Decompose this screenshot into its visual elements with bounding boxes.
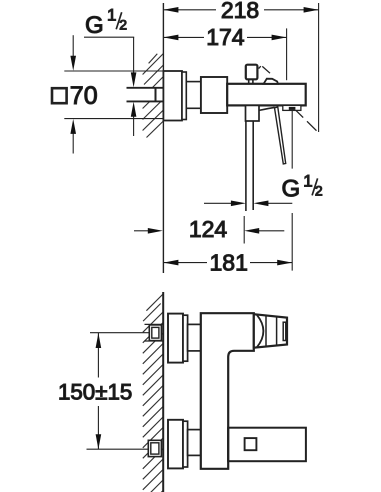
upper pipe elbow square xyxy=(149,325,161,341)
dimension 70 xyxy=(64,35,163,153)
dimension 181 xyxy=(163,260,292,266)
spout box front view xyxy=(228,428,306,462)
upper escutcheon front xyxy=(168,314,183,363)
dimension 174 xyxy=(163,35,286,41)
phantom lever dash 1 xyxy=(262,66,270,73)
supply pipe through wall xyxy=(127,88,164,102)
lever top edge below body xyxy=(259,107,275,110)
upper supply stubs xyxy=(145,324,163,341)
extension line 218 right xyxy=(318,3,320,132)
label G 1/2 lower xyxy=(282,172,323,203)
escutcheon flange side view xyxy=(163,71,182,121)
svg-text:1: 1 xyxy=(303,172,312,191)
svg-text:174: 174 xyxy=(206,24,245,50)
union adapter xyxy=(186,82,201,109)
lever grip above body xyxy=(264,79,278,84)
svg-text:218: 218 xyxy=(221,0,259,23)
square symbol xyxy=(52,88,67,103)
svg-text:181: 181 xyxy=(210,250,248,276)
phantom lever dash 2 xyxy=(294,108,303,117)
spout box square hole xyxy=(245,438,257,450)
spout block xyxy=(246,105,260,121)
cap segment lines xyxy=(266,315,277,347)
svg-text:G: G xyxy=(282,176,301,203)
wall line top view xyxy=(162,3,164,273)
union nut xyxy=(201,77,227,113)
flange plate xyxy=(182,72,186,120)
handle cap front view xyxy=(254,314,287,348)
phantom lever dash 3 xyxy=(307,121,317,130)
svg-text:2: 2 xyxy=(315,183,323,199)
dimension 124 xyxy=(134,216,284,244)
extension line 174 right xyxy=(286,28,288,80)
G1/2 lower arrows at outlet pipe xyxy=(204,201,292,207)
G1/2 leader arrows at pipe xyxy=(131,37,137,136)
svg-text:1: 1 xyxy=(107,6,116,25)
svg-text:70: 70 xyxy=(70,82,98,110)
wall hatching top view xyxy=(143,54,164,138)
aerator mousseur xyxy=(283,105,301,110)
cap dome arc xyxy=(257,315,264,347)
upper connector xyxy=(188,324,201,351)
body column front view xyxy=(201,313,254,469)
svg-text:2: 2 xyxy=(119,17,127,33)
lower escutcheon front xyxy=(168,420,183,469)
svg-text:G: G xyxy=(85,12,104,39)
shower outlet pipe line right xyxy=(252,121,254,210)
shower outlet pipe line left xyxy=(245,121,247,211)
dimension 150±15 xyxy=(96,333,102,449)
lever blade xyxy=(275,107,286,164)
wall hatching bottom view xyxy=(143,294,163,492)
svg-text:150±15: 150±15 xyxy=(58,380,132,405)
faucet body side view xyxy=(227,84,306,106)
cartridge cap xyxy=(246,65,258,80)
label G 1/2 top xyxy=(84,6,134,39)
cap end connector rect xyxy=(283,322,286,340)
outlet centre leader xyxy=(291,111,293,271)
wall line bottom view xyxy=(162,292,164,492)
lower pipe elbow square xyxy=(148,440,161,456)
lower connector xyxy=(188,430,201,456)
phantom lever tick xyxy=(259,66,261,68)
dimension 218 xyxy=(163,7,318,13)
lower centreline xyxy=(87,448,149,450)
svg-text:124: 124 xyxy=(189,216,228,242)
upper centreline xyxy=(90,332,149,334)
column right edge across box xyxy=(227,428,229,462)
